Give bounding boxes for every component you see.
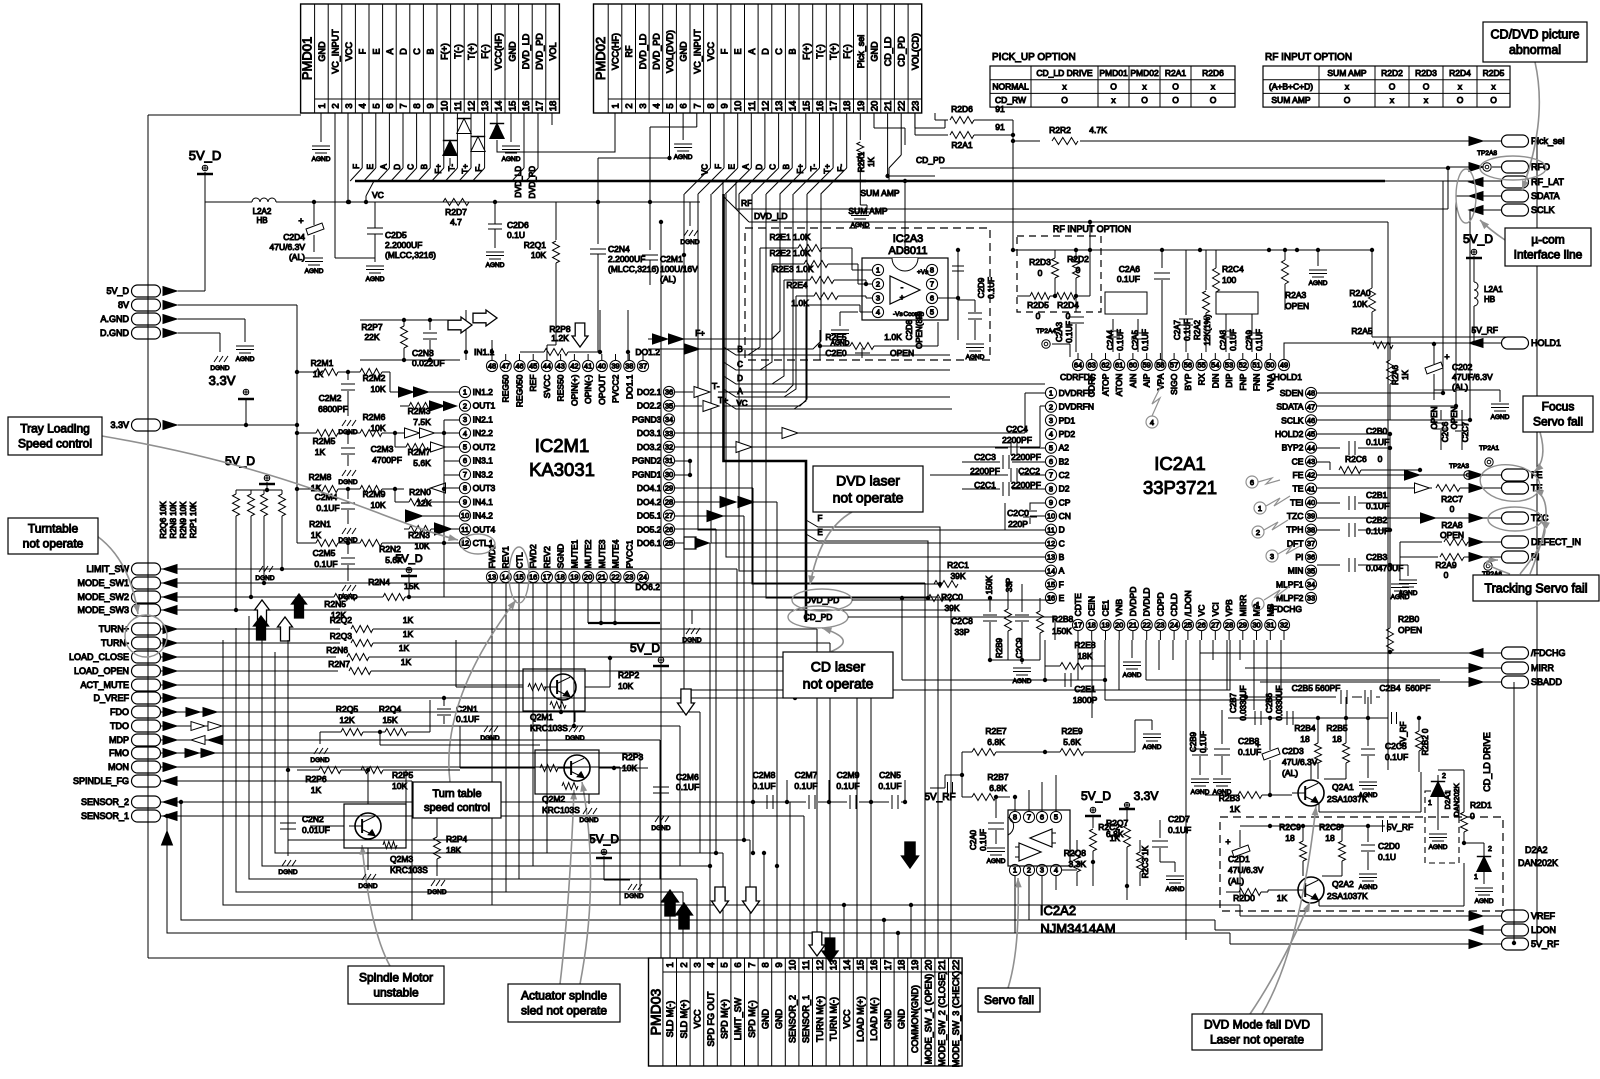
power 5V_D mid xyxy=(630,641,669,666)
svg-text:GND: GND xyxy=(883,1009,893,1030)
svg-text:PGND3: PGND3 xyxy=(632,415,662,425)
svg-text:1: 1 xyxy=(1474,874,1478,881)
svg-text:1.0K: 1.0K xyxy=(884,332,902,342)
resistor R2M3 xyxy=(400,403,431,428)
svg-text:4: 4 xyxy=(1150,418,1154,427)
svg-text:REF: REF xyxy=(528,375,538,392)
svg-text:DVDRFN: DVDRFN xyxy=(1059,402,1094,412)
svg-text:C2D5: C2D5 xyxy=(385,230,407,240)
ground AGND PMD02 pin6 xyxy=(674,113,693,161)
wire dvref row xyxy=(161,696,797,700)
svg-text:2SA1037K: 2SA1037K xyxy=(1327,794,1368,804)
leader tray loading xyxy=(102,436,458,541)
svg-text:O: O xyxy=(1490,95,1497,105)
wire C slant xyxy=(724,360,951,370)
svg-text:D.GND: D.GND xyxy=(100,328,130,338)
svg-text:A: A xyxy=(737,387,743,396)
svg-text:DAN202K: DAN202K xyxy=(1518,858,1558,868)
ground AGND r2e8 xyxy=(1123,640,1142,679)
svg-text:C2D6: C2D6 xyxy=(507,220,529,230)
resistor R2M5 xyxy=(297,430,360,458)
svg-text:D: D xyxy=(737,374,743,383)
svg-text:GND: GND xyxy=(760,1009,770,1030)
svg-text:E: E xyxy=(371,48,381,54)
svg-text:R2Q6 10K: R2Q6 10K xyxy=(159,501,168,539)
svg-text:SENSOR_2: SENSOR_2 xyxy=(788,995,798,1043)
svg-text:R2N6: R2N6 xyxy=(326,645,348,655)
svg-text:41: 41 xyxy=(584,362,592,371)
svg-text:12: 12 xyxy=(815,960,826,971)
wire modesw1 row xyxy=(161,583,925,958)
svg-text:21: 21 xyxy=(883,101,894,112)
svg-text:1: 1 xyxy=(1428,800,1432,807)
svg-text:O: O xyxy=(1061,95,1068,105)
svg-text:12K(1%): 12K(1%) xyxy=(1203,314,1212,345)
svg-text:D: D xyxy=(760,48,770,55)
svg-text:24: 24 xyxy=(1170,621,1178,630)
bus PMD01 xyxy=(355,180,866,183)
block arrow rows1 xyxy=(255,600,270,624)
svg-text:R2D3: R2D3 xyxy=(1415,68,1437,78)
block arrow mid1 xyxy=(678,689,695,715)
svg-text:22: 22 xyxy=(611,573,619,582)
svg-text:CDLD: CDLD xyxy=(1169,593,1179,616)
svg-text:5.6K: 5.6K xyxy=(1063,737,1081,747)
svg-text:T-: T- xyxy=(810,164,819,171)
power 5V_D left xyxy=(225,454,275,484)
svg-text:5V_D: 5V_D xyxy=(189,148,222,163)
capacitor C2D5 xyxy=(367,202,436,262)
svg-text:43: 43 xyxy=(1307,457,1315,466)
svg-text:OPEN: OPEN xyxy=(1285,301,1309,311)
svg-text:F: F xyxy=(720,48,730,54)
ground DGND q2m2 xyxy=(579,794,598,824)
svg-text:F-: F- xyxy=(837,164,846,172)
capacitor C2N4 xyxy=(590,202,659,352)
wire 5vd ladder xyxy=(236,482,282,492)
svg-text:52: 52 xyxy=(1239,361,1247,370)
svg-text:REG050: REG050 xyxy=(515,374,525,407)
table RF INPUT OPTION xyxy=(1263,52,1510,107)
leader dvd laser xyxy=(808,512,852,585)
svg-text:CD_LD: CD_LD xyxy=(883,36,893,66)
svg-text:5: 5 xyxy=(371,103,382,108)
resistor R2M2 xyxy=(360,369,400,395)
leader focus xyxy=(1534,432,1543,472)
svg-text:DO6.1: DO6.1 xyxy=(637,538,662,548)
wire spindle row xyxy=(161,781,412,920)
wire E mid xyxy=(806,528,930,600)
block arrow rows3 xyxy=(254,616,269,640)
svg-text:LDON: LDON xyxy=(1531,925,1556,935)
resistor R2C1 xyxy=(934,560,969,588)
svg-text:0.1UF: 0.1UF xyxy=(456,714,479,724)
svg-text:Laser not operate: Laser not operate xyxy=(1210,1033,1304,1047)
resistor R2Q7 xyxy=(1090,818,1129,886)
ground DGND c2m4 xyxy=(338,528,357,544)
svg-text:OPEN: OPEN xyxy=(890,348,914,358)
wire actmute row xyxy=(161,684,523,686)
svg-text:A: A xyxy=(1059,566,1065,576)
resistor R2N4 xyxy=(368,577,419,591)
wire RFO row xyxy=(940,166,1501,170)
leader ucom xyxy=(1480,220,1505,240)
wire q2m2 in xyxy=(460,767,535,769)
svg-text:CD_PD: CD_PD xyxy=(804,612,833,622)
svg-text:R2Q1: R2Q1 xyxy=(524,240,546,250)
svg-text:15K: 15K xyxy=(382,715,397,725)
svg-text:33P: 33P xyxy=(1005,578,1014,592)
svg-text:KRC103S: KRC103S xyxy=(530,723,568,733)
svg-text:OUT2: OUT2 xyxy=(473,442,496,452)
svg-text:91: 91 xyxy=(995,104,1005,114)
svg-text:R2Q4: R2Q4 xyxy=(379,704,401,714)
transistor Q2A2 xyxy=(1292,877,1368,903)
arrow do51 xyxy=(707,511,723,522)
svg-text:R2M6: R2M6 xyxy=(363,412,386,422)
svg-text:5V_D: 5V_D xyxy=(395,553,423,565)
svg-text:T-: T- xyxy=(712,381,720,391)
svg-text:C2B2: C2B2 xyxy=(1366,515,1388,525)
svg-text:13: 13 xyxy=(488,573,496,582)
wire q2m wiring xyxy=(288,640,460,770)
svg-text:MUTE2: MUTE2 xyxy=(583,539,593,568)
capacitor C2D9 xyxy=(952,250,996,340)
svg-text:38: 38 xyxy=(1307,525,1315,534)
svg-text:L2A1: L2A1 xyxy=(1484,285,1503,294)
svg-text:5V_D: 5V_D xyxy=(630,641,660,655)
svg-text:T(-): T(-) xyxy=(453,44,463,59)
svg-text:F-: F- xyxy=(475,164,484,172)
svg-text:R2M1: R2M1 xyxy=(311,358,334,368)
svg-text:NJM3414AM: NJM3414AM xyxy=(1040,921,1115,936)
wire ic2a3 out xyxy=(938,248,960,300)
svg-text:C2C9: C2C9 xyxy=(1015,637,1024,658)
svg-text:0: 0 xyxy=(1444,570,1449,580)
leader tracking pi xyxy=(1486,557,1510,574)
svg-text:AGND: AGND xyxy=(366,276,385,283)
svg-text:43: 43 xyxy=(556,362,564,371)
svg-text:41: 41 xyxy=(1307,484,1315,493)
svg-text:C2A6: C2A6 xyxy=(1119,264,1141,274)
svg-text:Servo fail: Servo fail xyxy=(984,993,1034,1007)
svg-text:E: E xyxy=(728,164,737,169)
svg-text:10K: 10K xyxy=(618,681,633,691)
wire q2a1 emitter xyxy=(1319,772,1421,812)
callout Turn table speed control xyxy=(413,782,501,818)
svg-text:C: C xyxy=(412,48,422,55)
capacitor C2B0 xyxy=(1317,426,1392,455)
svg-text:0.1UF: 0.1UF xyxy=(1366,526,1389,536)
svg-text:DIP: DIP xyxy=(1224,373,1234,388)
ground AGND c2c8 xyxy=(1013,658,1032,685)
svg-text:VCC(HF): VCC(HF) xyxy=(611,33,621,70)
wire SBADD row xyxy=(1260,681,1501,683)
svg-text:R2A9: R2A9 xyxy=(1435,560,1457,570)
svg-text:C2E0: C2E0 xyxy=(825,348,847,358)
svg-text:O: O xyxy=(1172,82,1179,92)
svg-text:SENSOR_1: SENSOR_1 xyxy=(801,995,811,1043)
svg-text:6: 6 xyxy=(385,103,396,108)
arrow TE open xyxy=(1415,483,1430,493)
resistor R2N1 xyxy=(297,519,360,547)
svg-text:IC2A3: IC2A3 xyxy=(893,233,924,245)
svg-text:Q2A2: Q2A2 xyxy=(1332,879,1354,889)
resistor R2A8 xyxy=(1400,520,1501,546)
svg-text:LIMIT_SW: LIMIT_SW xyxy=(733,997,743,1040)
svg-text:R2P5: R2P5 xyxy=(392,770,414,780)
svg-text:1: 1 xyxy=(463,388,467,397)
wire DGND row xyxy=(178,333,220,352)
svg-text:28: 28 xyxy=(665,497,673,506)
svg-text:(MLCC,3216): (MLCC,3216) xyxy=(608,264,659,274)
capacitor C2A7 xyxy=(1173,250,1193,352)
svg-text:4.7: 4.7 xyxy=(450,217,462,227)
resistor R2B0 xyxy=(1387,598,1423,654)
svg-text:19: 19 xyxy=(856,101,867,112)
svg-text:Interface line: Interface line xyxy=(1514,248,1583,262)
ground DGND r2p4 xyxy=(427,880,446,896)
wire turnp row xyxy=(161,615,817,938)
wire 5vd row xyxy=(178,172,205,291)
svg-text:2: 2 xyxy=(331,103,342,108)
svg-text:9: 9 xyxy=(774,962,785,967)
wire r2b7 net xyxy=(945,752,964,797)
svg-text:23: 23 xyxy=(625,573,633,582)
gray ellipse RFO xyxy=(1480,156,1546,180)
svg-text:DGND: DGND xyxy=(579,817,598,824)
svg-text:5V_RF: 5V_RF xyxy=(1472,325,1498,335)
wire LDON row xyxy=(1215,929,1501,931)
capacitor C2E1 xyxy=(1043,666,1107,705)
svg-text:DO2.2: DO2.2 xyxy=(637,401,662,411)
svg-text:Q2M3: Q2M3 xyxy=(390,854,413,864)
wire q2a1 base top xyxy=(1311,763,1318,779)
svg-text:T(+): T(+) xyxy=(467,43,477,60)
svg-text:MIRR: MIRR xyxy=(1531,663,1554,673)
wire PMD02 pin21 drop xyxy=(885,113,935,178)
resistor R2Q4 xyxy=(379,704,430,736)
svg-text:PI: PI xyxy=(1295,552,1303,562)
svg-text:Actuator spindle: Actuator spindle xyxy=(521,989,607,1003)
arrow do61 xyxy=(684,537,709,549)
wire mdp row xyxy=(161,740,660,879)
svg-text:27: 27 xyxy=(665,511,673,520)
svg-text:17: 17 xyxy=(829,101,840,112)
wire hold1 row xyxy=(1360,325,1501,343)
svg-text:/LDON: /LDON xyxy=(1183,590,1193,616)
wire sensor2 row xyxy=(161,800,790,958)
svg-text:SBADD: SBADD xyxy=(1531,677,1563,687)
svg-text:R2A3: R2A3 xyxy=(1285,290,1307,300)
resistor R2M1 xyxy=(297,358,360,379)
svg-text:PMD02: PMD02 xyxy=(593,37,608,80)
svg-text:56: 56 xyxy=(1184,361,1192,370)
svg-text:Turn table: Turn table xyxy=(432,788,481,800)
svg-text:TZC: TZC xyxy=(1287,511,1304,521)
block arrow pmd03 b xyxy=(822,938,838,962)
svg-text:MODE_SW2: MODE_SW2 xyxy=(77,592,129,602)
svg-text:(AL): (AL) xyxy=(660,274,676,284)
capacitor C2N1 xyxy=(437,698,479,724)
block arrow top2 xyxy=(448,317,472,333)
svg-text:C: C xyxy=(1059,538,1065,548)
svg-text:SUM AMP: SUM AMP xyxy=(1327,68,1367,78)
svg-text:FMO: FMO xyxy=(109,748,129,758)
svg-text:DGND: DGND xyxy=(338,479,357,486)
capacitor C2M4 xyxy=(315,489,355,524)
arrow icm1 p8 xyxy=(430,483,459,493)
leader servo fail xyxy=(1008,878,1022,988)
svg-text:2: 2 xyxy=(624,103,635,108)
svg-text:22: 22 xyxy=(1143,621,1151,630)
leader tracking tzc xyxy=(1520,521,1550,574)
svg-text:IN3.1: IN3.1 xyxy=(473,456,494,466)
svg-text:Tracking Servo fail: Tracking Servo fail xyxy=(1484,581,1587,595)
svg-text:C2M8: C2M8 xyxy=(753,770,776,780)
svg-text:F(-): F(-) xyxy=(842,44,852,59)
svg-text:C2M5: C2M5 xyxy=(313,548,336,558)
wire do42 line xyxy=(675,502,777,958)
svg-text:33: 33 xyxy=(665,429,673,438)
svg-text:6: 6 xyxy=(1049,457,1053,466)
svg-text:C: C xyxy=(774,48,784,55)
svg-text:SENSOR_1: SENSOR_1 xyxy=(81,811,129,821)
svg-text:4: 4 xyxy=(1049,430,1053,439)
svg-text:14: 14 xyxy=(494,101,505,112)
svg-text:10K: 10K xyxy=(1352,299,1367,309)
wire corner border xyxy=(1512,682,1516,945)
arrow sensor up xyxy=(162,831,173,845)
block arrow rows2 xyxy=(292,594,307,618)
svg-text:10: 10 xyxy=(788,960,799,971)
resistor R2A2 xyxy=(1193,250,1212,352)
callout Focus Servo fail xyxy=(1523,396,1593,432)
svg-text:45: 45 xyxy=(1307,430,1315,439)
wire hbus1 xyxy=(1105,699,1281,701)
svg-text:R2D6: R2D6 xyxy=(1202,68,1224,78)
resistor R2D1 xyxy=(1461,795,1493,845)
svg-text:SLD M(-): SLD M(-) xyxy=(665,1001,675,1038)
svg-text:0.1UF: 0.1UF xyxy=(1065,321,1074,343)
svg-text:12: 12 xyxy=(1047,539,1055,548)
arrow icm1 p4 xyxy=(405,428,460,438)
svg-text:ATON: ATON xyxy=(1114,374,1124,397)
svg-text:2: 2 xyxy=(1442,773,1446,780)
svg-text:C2M1: C2M1 xyxy=(660,254,683,264)
svg-text:5.6K: 5.6K xyxy=(413,458,431,468)
wire TZC row xyxy=(1317,517,1501,519)
svg-text:2: 2 xyxy=(1027,866,1031,875)
svg-text:3: 3 xyxy=(692,962,703,967)
svg-text:10: 10 xyxy=(461,511,469,520)
svg-text:12: 12 xyxy=(760,101,771,112)
svg-text:(AL): (AL) xyxy=(1228,876,1244,886)
svg-text:5V_RF: 5V_RF xyxy=(1531,939,1560,949)
label SUM AMP xyxy=(848,206,888,216)
resistor R2P6 xyxy=(297,767,370,796)
svg-text:Q2A1: Q2A1 xyxy=(1332,782,1354,792)
svg-text:0: 0 xyxy=(1036,311,1041,321)
svg-text:5V_RF: 5V_RF xyxy=(1387,822,1413,832)
callout Servo fail xyxy=(978,988,1040,1012)
wire FE row xyxy=(1317,474,1501,476)
svg-text:FNP: FNP xyxy=(1238,373,1248,390)
svg-text:AGND: AGND xyxy=(1309,280,1328,287)
resistor R2D0 xyxy=(1226,889,1288,904)
svg-text:E: E xyxy=(733,48,743,54)
svg-text:CD/DVD picture: CD/DVD picture xyxy=(1491,28,1580,42)
resistor R2E2 xyxy=(760,248,872,370)
svg-text:IC2A2: IC2A2 xyxy=(1040,903,1076,918)
wires IC2M1 top stubs xyxy=(492,354,643,360)
svg-text:R2N1: R2N1 xyxy=(309,519,331,529)
resistor R2C2 xyxy=(1098,822,1130,900)
svg-text:R2B4: R2B4 xyxy=(1294,723,1316,733)
svg-text:5: 5 xyxy=(1054,813,1058,822)
svg-text:OPIN(+): OPIN(+) xyxy=(569,374,579,406)
svg-text:R2E9: R2E9 xyxy=(1061,726,1083,736)
ground DGND top xyxy=(680,230,699,246)
callout Tracking Servo fail xyxy=(1473,575,1599,601)
svg-text:AIN: AIN xyxy=(1128,374,1138,388)
capacitor C2C0 xyxy=(1005,503,1045,530)
svg-text:L2A2: L2A2 xyxy=(253,207,272,216)
svg-text:0.1UF: 0.1UF xyxy=(987,277,996,299)
arrow icm1 p1 xyxy=(399,387,460,397)
callout CD/DVD picture abnormal xyxy=(1483,22,1587,62)
svg-text:18: 18 xyxy=(556,573,564,582)
svg-text:1.2K: 1.2K xyxy=(551,333,569,343)
svg-text:T+: T+ xyxy=(823,164,832,174)
wire sum bus xyxy=(903,179,907,250)
diode D2A2 xyxy=(1464,843,1492,884)
svg-text:47: 47 xyxy=(1307,402,1315,411)
svg-text:µ-com: µ-com xyxy=(1531,233,1565,247)
svg-text:VC: VC xyxy=(1197,605,1207,617)
svg-text:R2P3: R2P3 xyxy=(622,752,644,762)
svg-text:1800P: 1800P xyxy=(1073,695,1098,705)
svg-text:FDO: FDO xyxy=(110,707,129,717)
resistor R2E7 xyxy=(962,726,1047,756)
wire C line xyxy=(752,194,940,584)
capacitor C2M1 xyxy=(642,202,698,285)
svg-text:18: 18 xyxy=(548,101,559,112)
wire PMD02 pin5 drop xyxy=(598,113,672,202)
circled 1a xyxy=(1254,496,1290,514)
svg-text:B: B xyxy=(782,164,791,169)
svg-text:16: 16 xyxy=(815,101,826,112)
wire F mid xyxy=(806,514,942,586)
svg-text:AGND: AGND xyxy=(1429,844,1448,851)
svg-text:C2M9: C2M9 xyxy=(837,770,860,780)
wire PMD01 pin14 to PMD02 pin1 xyxy=(495,113,615,152)
svg-text:D2A2: D2A2 xyxy=(1525,845,1548,855)
svg-text:DVD_PD: DVD_PD xyxy=(805,595,839,605)
leader tracking te xyxy=(1530,490,1546,574)
ground AGND r2e9 xyxy=(1135,720,1162,751)
leader actuator 1 xyxy=(560,790,577,984)
wire tdo row xyxy=(161,726,680,866)
svg-text:R2D3: R2D3 xyxy=(1029,257,1051,267)
circled 4 xyxy=(1146,384,1162,428)
svg-text:R2P2: R2P2 xyxy=(618,670,640,680)
svg-text:A.GND: A.GND xyxy=(100,314,129,324)
svg-text:CD_LD DRIVE: CD_LD DRIVE xyxy=(1482,732,1492,792)
svg-text:C2D3: C2D3 xyxy=(1282,746,1304,756)
wire thick laser top xyxy=(722,194,725,380)
wire nest L2 xyxy=(181,802,886,922)
